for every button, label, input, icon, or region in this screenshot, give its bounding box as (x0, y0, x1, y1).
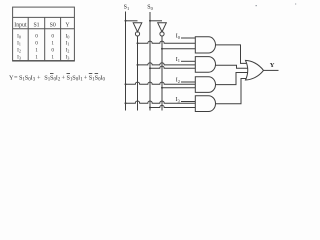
svg-text:Input: Input (14, 22, 27, 28)
svg-text:1: 1 (80, 78, 83, 83)
svg-text:+: + (62, 74, 66, 81)
svg-text:1: 1 (51, 54, 54, 60)
svg-text:Y: Y (270, 62, 275, 69)
svg-text:3: 3 (33, 78, 36, 83)
svg-text:I3: I3 (66, 54, 70, 60)
svg-text:I3: I3 (17, 54, 21, 60)
svg-text:I1: I1 (17, 40, 21, 46)
svg-text:I0: I0 (176, 34, 181, 40)
svg-text:1: 1 (35, 54, 38, 60)
svg-text:0: 0 (103, 78, 106, 83)
svg-text:I3: I3 (176, 97, 181, 103)
svg-text:I0: I0 (17, 33, 21, 39)
svg-text:I0: I0 (66, 33, 70, 39)
svg-text:+: + (37, 74, 41, 81)
svg-text:I2: I2 (176, 78, 180, 84)
svg-text:=: = (14, 74, 18, 81)
svg-text:0: 0 (51, 48, 54, 54)
svg-text:I1: I1 (176, 57, 180, 63)
svg-text:S1: S1 (124, 5, 130, 11)
svg-text:S0: S0 (147, 5, 153, 11)
svg-text:0: 0 (35, 40, 38, 46)
svg-text:2: 2 (58, 78, 61, 83)
svg-text:1: 1 (35, 48, 38, 54)
svg-text:S1: S1 (33, 22, 39, 28)
svg-text:I2: I2 (17, 48, 21, 54)
svg-text:0: 0 (35, 33, 38, 39)
svg-text:I2: I2 (66, 48, 70, 54)
svg-text:I1: I1 (66, 40, 70, 46)
svg-text:+: + (84, 74, 88, 81)
svg-text:Y: Y (65, 22, 70, 28)
svg-text:1: 1 (51, 40, 54, 46)
svg-text:0: 0 (51, 33, 54, 39)
svg-text:S0: S0 (50, 22, 56, 28)
